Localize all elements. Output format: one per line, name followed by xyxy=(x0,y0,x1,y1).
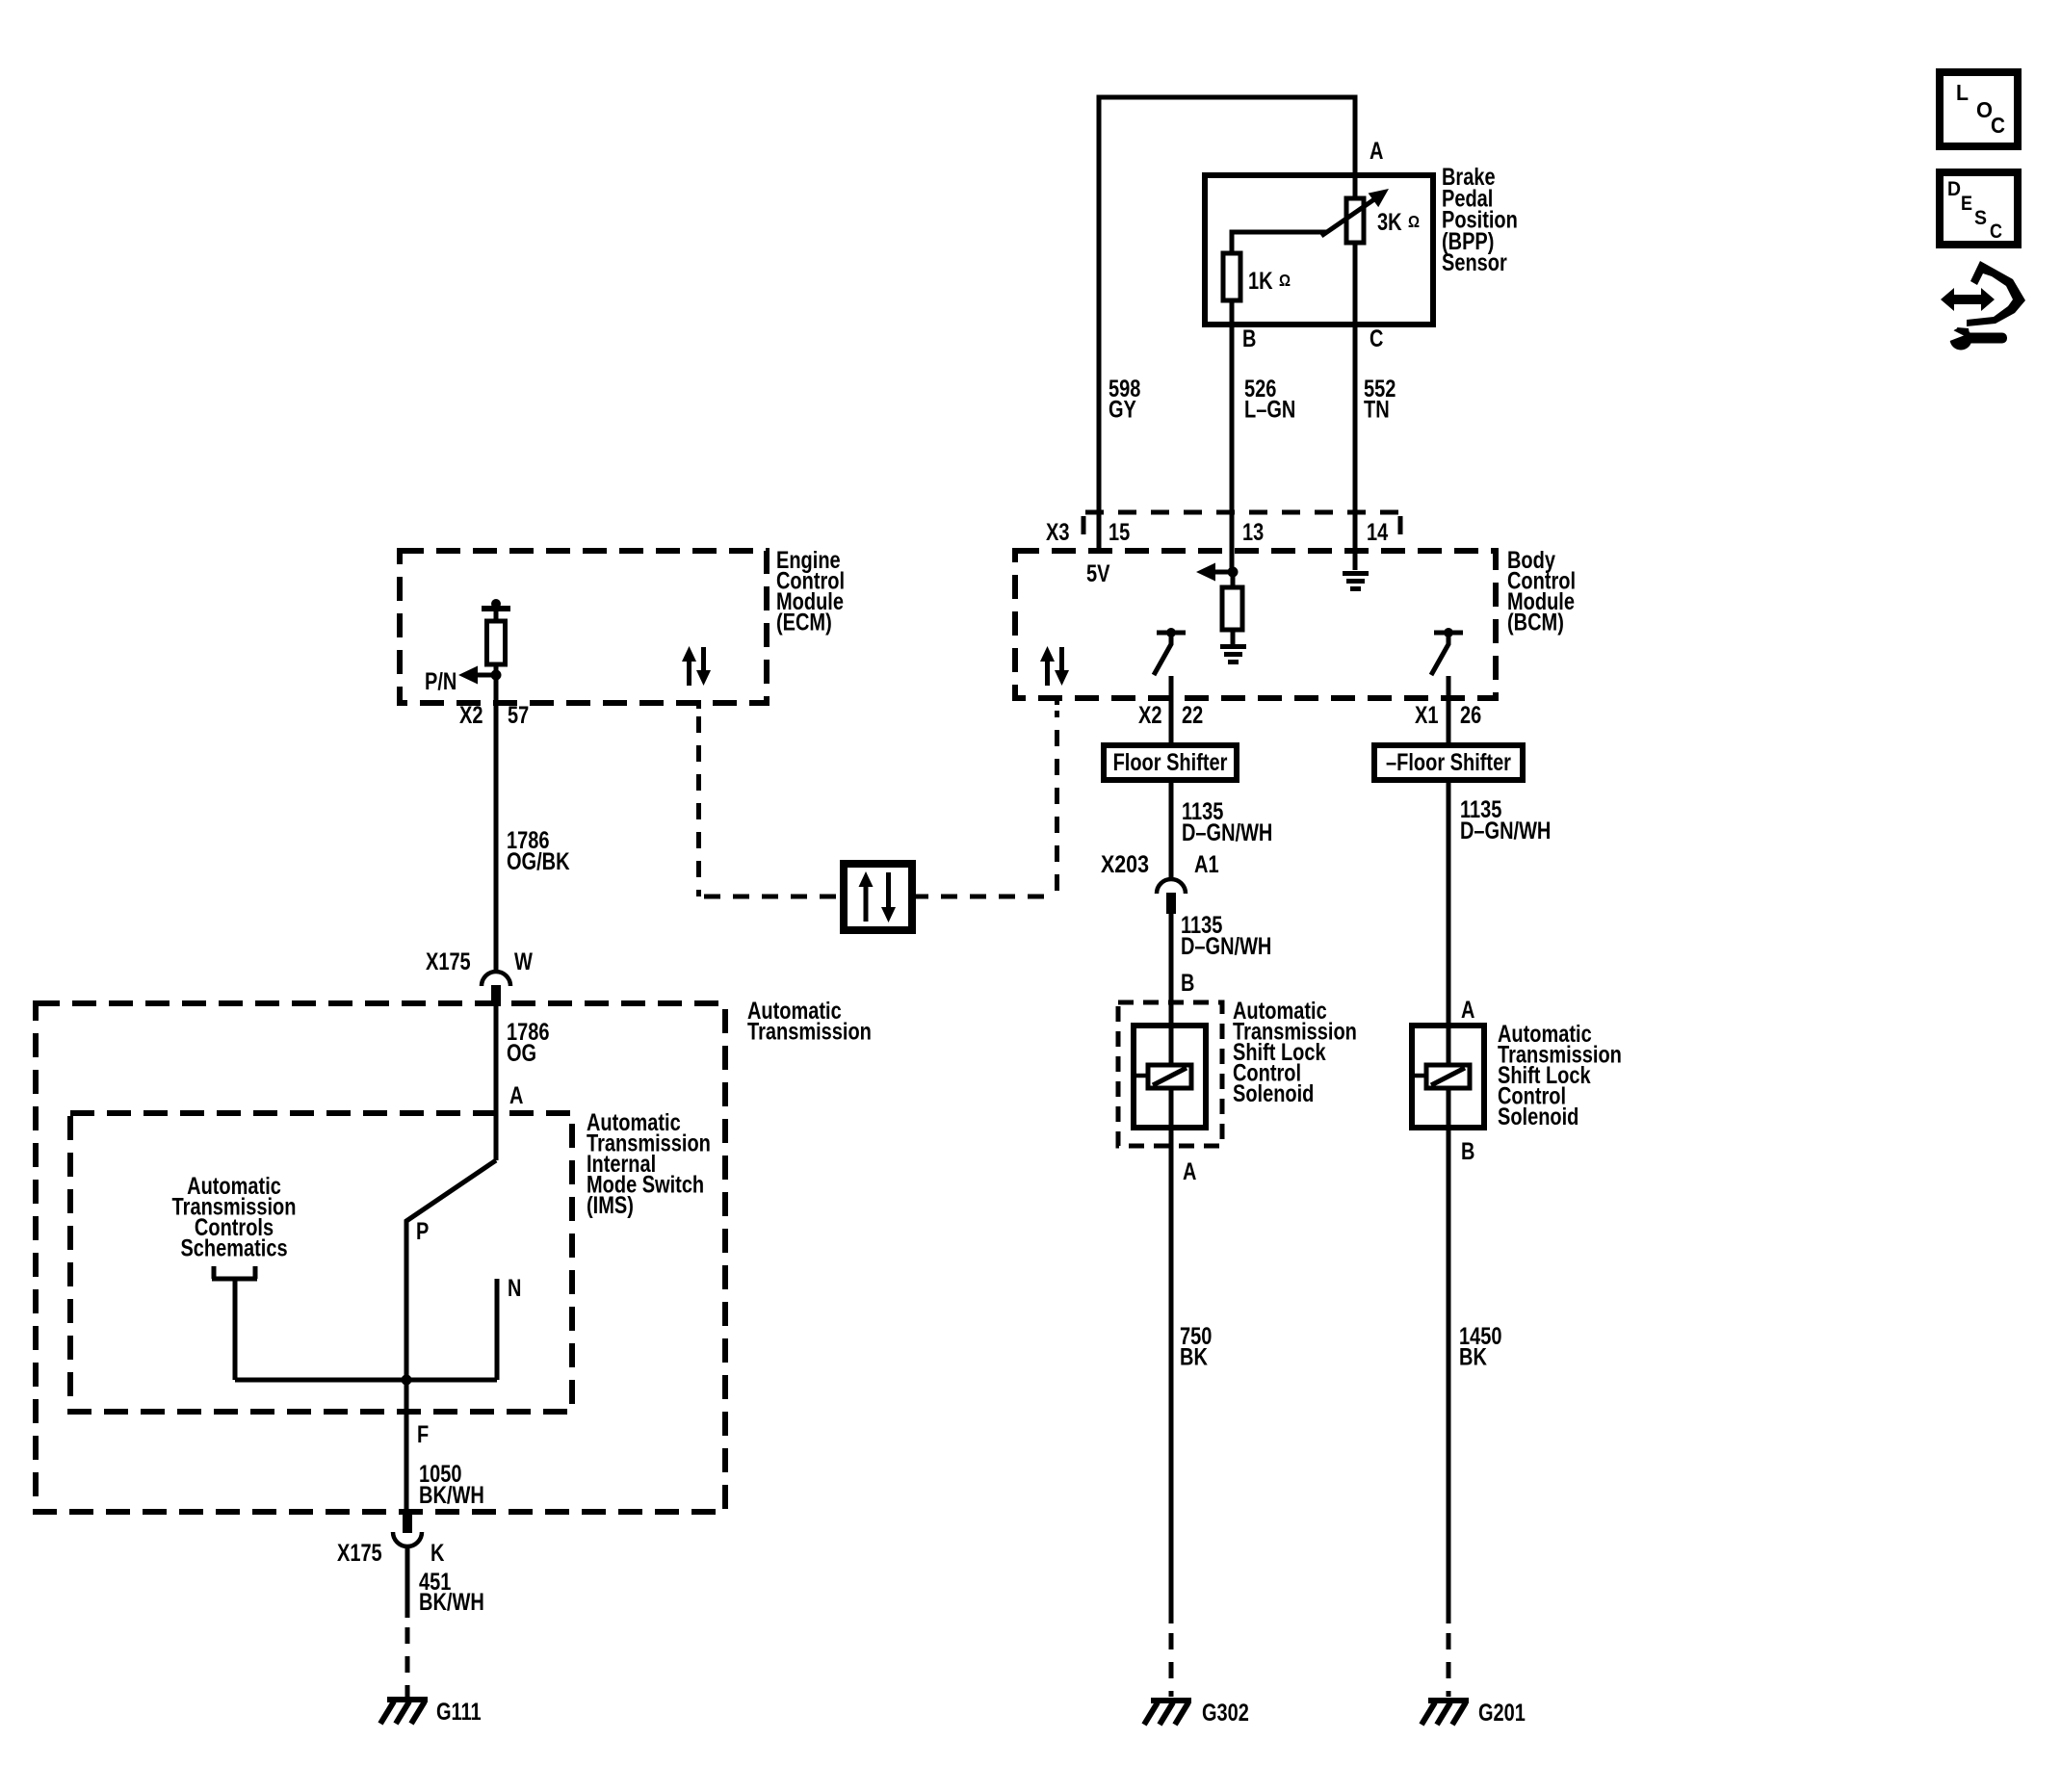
svg-text:A: A xyxy=(1461,997,1474,1024)
svg-text:B: B xyxy=(1181,970,1194,997)
wire: 5V feed 598 from BCM pin 15 up and over to BPP pin A / 552 return xyxy=(1099,97,1355,570)
svg-text:S: S xyxy=(1974,207,1987,229)
inline connector X203 terminal A1 xyxy=(1157,879,1186,894)
svg-text:–Floor Shifter: –Floor Shifter xyxy=(1386,749,1511,776)
svg-text:Transmission: Transmission xyxy=(747,1018,872,1045)
svg-text:26: 26 xyxy=(1460,702,1481,729)
ground G111 (chassis) xyxy=(380,1700,428,1724)
wire: IMS bottom bus to F output xyxy=(235,1378,497,1383)
svg-text:Schematics: Schematics xyxy=(180,1234,287,1261)
box: Internal Mode Switch (IMS) xyxy=(70,1113,572,1412)
svg-text:X2: X2 xyxy=(1138,701,1161,729)
wire: dashed ground lead G111 xyxy=(405,1627,410,1697)
svg-text:Solenoid: Solenoid xyxy=(1233,1080,1314,1107)
svg-text:X175: X175 xyxy=(337,1540,382,1567)
component box: left shift lock solenoid xyxy=(1134,1026,1206,1128)
internal signal arrow P/N xyxy=(478,673,496,678)
svg-text:X203: X203 xyxy=(1101,850,1149,877)
svg-text:B: B xyxy=(1461,1138,1474,1165)
svg-text:C: C xyxy=(1990,221,2002,244)
svg-text:1K: 1K xyxy=(1248,267,1273,295)
svg-text:L: L xyxy=(1956,80,1969,105)
wire: 451 BK/WH to ground xyxy=(405,1547,410,1618)
svg-text:L–GN: L–GN xyxy=(1244,396,1295,423)
svg-text:Sensor: Sensor xyxy=(1442,249,1507,276)
resistor: ECM internal pull-up (P/N signal) xyxy=(487,621,506,664)
svg-text:X175: X175 xyxy=(426,948,471,975)
component box: Floor Shifter (left) xyxy=(1104,745,1237,780)
svg-text:GY: GY xyxy=(1109,396,1136,423)
junction: BCM pin 13 node xyxy=(1228,567,1239,578)
svg-text:A: A xyxy=(509,1082,523,1109)
solenoid assembly dashed box (left) xyxy=(1118,1002,1222,1146)
svg-text:G201: G201 xyxy=(1478,1700,1526,1727)
svg-text:X2: X2 xyxy=(459,701,483,729)
svg-text:(BCM): (BCM) xyxy=(1507,609,1564,636)
legend box LOC xyxy=(1940,72,2018,146)
svg-text:A1: A1 xyxy=(1194,850,1219,878)
svg-text:22: 22 xyxy=(1182,702,1203,729)
wire: BPP pin B down to BCM pin 13 xyxy=(1230,300,1235,572)
svg-text:Floor Shifter: Floor Shifter xyxy=(1113,749,1228,776)
svg-text:X3: X3 xyxy=(1046,518,1069,546)
svg-text:Ω: Ω xyxy=(1408,212,1420,232)
svg-text:X1: X1 xyxy=(1415,701,1438,729)
switch: BCM driver to X2-22 (floor shifter solenoid) xyxy=(1157,631,1186,636)
wiper arrow through 3K resistor xyxy=(1321,199,1374,236)
svg-text:C: C xyxy=(1370,325,1383,352)
svg-text:OG/BK: OG/BK xyxy=(507,848,570,875)
junction: IMS output node xyxy=(402,1375,412,1386)
ground G302 (chassis) xyxy=(1144,1701,1191,1725)
svg-text:P/N: P/N xyxy=(425,668,457,695)
svg-text:3K: 3K xyxy=(1377,208,1402,236)
svg-text:D–GN/WH: D–GN/WH xyxy=(1182,819,1272,846)
wire: IMS N contact xyxy=(495,1279,500,1380)
svg-text:BK: BK xyxy=(1180,1343,1208,1370)
svg-text:Ω: Ω xyxy=(1279,271,1291,291)
wire: dashed ground lead G201 xyxy=(1447,1633,1451,1697)
svg-text:P: P xyxy=(416,1218,429,1245)
svg-text:15: 15 xyxy=(1109,519,1130,546)
legend box DESC xyxy=(1940,172,2018,245)
svg-text:D–GN/WH: D–GN/WH xyxy=(1460,818,1551,844)
wire: left shifter output 1135 xyxy=(1169,780,1174,878)
legend icon: jump arrows and wrench xyxy=(1967,261,2025,326)
svg-text:B: B xyxy=(1242,325,1256,352)
svg-text:13: 13 xyxy=(1242,519,1264,546)
wire: ECM resistor to X2-57 and down to X175-W xyxy=(494,664,499,974)
solenoid element (left) xyxy=(1148,1065,1191,1088)
wire: right shifter output 1135 xyxy=(1447,780,1451,1067)
svg-text:A: A xyxy=(1370,138,1383,165)
ground G201 (chassis) xyxy=(1422,1701,1469,1725)
svg-text:BK/WH: BK/WH xyxy=(419,1482,484,1509)
svg-text:A: A xyxy=(1183,1158,1196,1185)
serial data arrows (ECM internal) xyxy=(682,646,711,686)
svg-text:K: K xyxy=(430,1540,445,1567)
wire: left solenoid to ground 750 BK xyxy=(1169,1088,1174,1623)
wire: switch to BCM X1-26 terminal xyxy=(1447,676,1451,745)
wire: 1K node to wiper xyxy=(1232,232,1327,255)
svg-text:Solenoid: Solenoid xyxy=(1498,1104,1578,1130)
wire: dashed ground lead G302 xyxy=(1169,1633,1174,1697)
svg-text:G302: G302 xyxy=(1202,1700,1249,1727)
svg-text:E: E xyxy=(1961,193,1972,216)
inline connector X175 terminal W xyxy=(482,972,510,986)
svg-text:TN: TN xyxy=(1364,395,1390,423)
wire: switch to BCM X2-22 terminal xyxy=(1169,676,1174,745)
box: Automatic Transmission xyxy=(36,1003,725,1512)
wire: IMS wiper from A to P position xyxy=(406,1160,496,1380)
switch: BCM driver to X1-26 (floor shifter solenoid) xyxy=(1434,631,1463,636)
svg-text:5V: 5V xyxy=(1086,559,1109,587)
svg-text:C: C xyxy=(1991,113,2005,138)
inline connector X175 terminal K xyxy=(403,1512,412,1533)
svg-text:N: N xyxy=(508,1275,521,1302)
svg-text:D: D xyxy=(1947,178,1961,200)
svg-text:OG: OG xyxy=(507,1040,536,1067)
wire: serial data dashed link ECM to BCM xyxy=(696,700,701,709)
junction: P/N node xyxy=(491,670,502,681)
data link symbol (boxed serial arrows) xyxy=(844,864,912,930)
module box: Body Control Module (BCM) xyxy=(1015,551,1496,698)
ground symbol: BCM internal below resistor xyxy=(1220,644,1246,664)
ground symbol: BCM internal at pin 14 xyxy=(1343,571,1369,591)
voltage terminal symbol above ECM resistor xyxy=(491,599,501,609)
resistor: BCM internal pull (below pin 13 node) xyxy=(1231,572,1236,645)
svg-text:(IMS): (IMS) xyxy=(587,1192,634,1219)
connector strip X3 (BCM header) xyxy=(1085,510,1400,515)
svg-text:G111: G111 xyxy=(436,1699,482,1726)
module box: Engine Control Module (ECM) xyxy=(400,551,767,703)
svg-text:BK: BK xyxy=(1459,1343,1487,1370)
wire: F output down to X175-K xyxy=(404,1380,409,1512)
wire: X203 to left solenoid pin B xyxy=(1169,914,1174,1067)
serial data arrows (BCM internal) xyxy=(1040,646,1069,686)
svg-text:W: W xyxy=(514,948,533,975)
svg-text:57: 57 xyxy=(508,702,529,729)
component box: right shift lock solenoid xyxy=(1412,1026,1484,1128)
component box: Brake Pedal Position sensor xyxy=(1205,175,1433,325)
svg-text:BK/WH: BK/WH xyxy=(419,1589,484,1616)
component box: -Floor Shifter (right) xyxy=(1374,745,1523,780)
resistor 1K (pin B to wiper) xyxy=(1223,253,1240,300)
svg-text:14: 14 xyxy=(1367,519,1389,546)
svg-text:F: F xyxy=(417,1421,429,1448)
solenoid element (right) xyxy=(1426,1065,1470,1088)
internal signal arrow (pin 13 into BCM logic) xyxy=(1214,570,1233,575)
svg-text:D–GN/WH: D–GN/WH xyxy=(1181,933,1271,960)
off-page reference bracket (to AT controls schematics) xyxy=(212,1266,257,1380)
wire: right solenoid to ground 1450 BK xyxy=(1447,1088,1451,1623)
svg-text:(ECM): (ECM) xyxy=(776,609,832,636)
resistor 3K (variable, on pin A-C wire) xyxy=(1346,198,1364,243)
wire: 1786 OG into transmission xyxy=(494,1006,499,1160)
